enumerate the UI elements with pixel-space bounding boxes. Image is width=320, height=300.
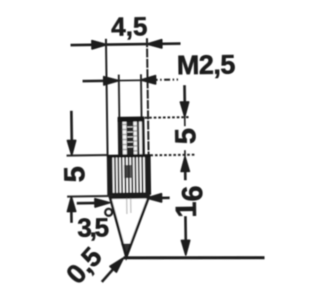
threaded stud right edge <box>142 118 145 155</box>
svg-text:5: 5 <box>170 128 202 145</box>
extension line stud-top right dotted <box>145 116 191 119</box>
knurl right edge thick <box>146 156 150 194</box>
dimension M2,5 leader dash-dot line <box>152 78 178 80</box>
dimension 16 line lower segment <box>184 216 187 246</box>
svg-text:5: 5 <box>59 166 91 183</box>
extension line knurl-top right dotted <box>150 154 196 157</box>
dimension 16 down arrowhead <box>181 240 189 255</box>
left dimension 5 down arrow <box>70 111 73 147</box>
tip radius 0,5 leader line <box>102 265 118 282</box>
svg-text:3,5: 3,5 <box>77 212 109 242</box>
dimension 4,5 line <box>71 44 181 46</box>
angle right arrow shaft <box>157 197 169 200</box>
dimension M2,5 middle line <box>118 79 141 81</box>
svg-text:1: 1 <box>171 201 203 217</box>
svg-text:6: 6 <box>177 185 209 201</box>
threaded stud left edge dark bar <box>118 118 123 155</box>
threaded stud top edge <box>118 117 144 122</box>
knurled body vertical stripes <box>111 157 145 193</box>
degree circle <box>105 209 112 216</box>
svg-text:M2,5: M2,5 <box>177 49 236 80</box>
right dimension 5 down arrow <box>183 85 186 108</box>
dimension M2,5 right arrowhead <box>141 76 156 84</box>
cone tip outline <box>110 197 149 257</box>
extension line knurl-top left <box>67 154 107 157</box>
threaded stud M2.5 outline <box>119 118 144 156</box>
angle 3,5 left arrow shaft <box>77 202 100 205</box>
extension line left of 4,5 <box>106 39 108 155</box>
knurled body central dark blotch <box>124 165 131 178</box>
threaded stud core white flecks <box>127 127 133 147</box>
threaded stud dark core band <box>126 118 133 155</box>
extension line stud left edge <box>118 75 121 118</box>
knurled body outline <box>108 156 150 195</box>
extension line stud right edge <box>140 74 143 117</box>
right dimension 5 line stubs <box>184 117 186 126</box>
dimension M2,5 left arrow shaft <box>83 79 109 82</box>
knurl top edge thick <box>107 154 150 158</box>
knurl bottom junction bar <box>109 193 150 198</box>
base surface line <box>124 256 265 260</box>
extension line right of 4,5 <box>147 38 149 154</box>
threaded stud inner line right <box>137 118 140 155</box>
dimension 4,5 left arrowhead <box>92 40 107 48</box>
dimension 4,5 right arrowhead <box>147 40 162 48</box>
dimension M2,5 left arrowhead <box>104 77 119 85</box>
threaded stud thread bands <box>122 124 139 151</box>
angle 3,5 left arrowhead <box>95 199 110 207</box>
angle right arrowhead pointing left at cone flank <box>147 194 162 202</box>
left dimension 5 up arrow <box>67 197 75 212</box>
knurl left edge thick <box>107 156 111 194</box>
tip radius 0,5 arrowhead <box>110 258 124 272</box>
cone faint interior stripes <box>127 198 131 214</box>
right dimension 5 up arrow <box>181 157 189 172</box>
svg-text:4,5: 4,5 <box>111 11 148 42</box>
cone tip dark blob <box>121 243 132 258</box>
extension line cone-top left <box>67 195 112 198</box>
